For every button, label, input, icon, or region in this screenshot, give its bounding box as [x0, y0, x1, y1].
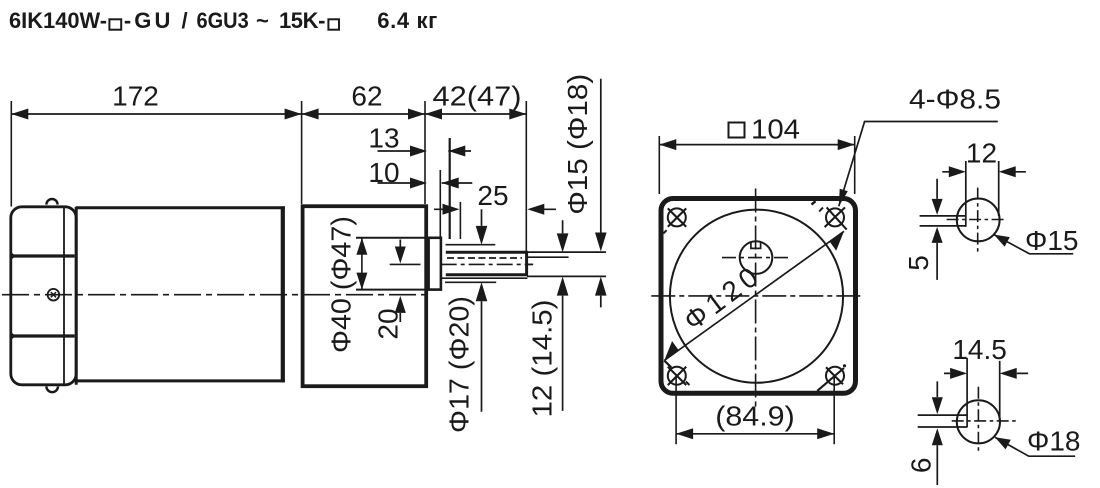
pilot circle	[670, 210, 843, 383]
dim 25	[434, 208, 556, 210]
svg-text:4-Φ8.5: 4-Φ8.5	[909, 84, 1001, 115]
svg-text:Φ15: Φ15	[1025, 225, 1078, 256]
shaft thin top line	[446, 244, 496, 246]
svg-text:6.4 кг: 6.4 кг	[377, 8, 437, 33]
svg-text:104: 104	[751, 113, 800, 144]
bolt hole TR	[826, 208, 844, 226]
detail18 extension left	[966, 358, 968, 428]
detail15 dim 5	[936, 179, 938, 280]
dim line 62	[302, 113, 425, 115]
keyway notch	[751, 242, 761, 248]
dim extension at motor/gear joint	[301, 101, 303, 204]
dim line (84.9)	[676, 433, 834, 435]
BR centerline dot	[843, 364, 846, 367]
bolt hole BL	[668, 367, 686, 385]
rear cover notch 2	[10, 331, 16, 342]
rear screw bottom	[46, 386, 58, 392]
BL diagonal dash to arrow	[664, 361, 671, 368]
detail15 vertical centerline	[977, 188, 979, 253]
dim line 172	[11, 113, 301, 115]
svg-text:6IK140W-: 6IK140W-	[9, 8, 107, 33]
svg-text:13: 13	[368, 123, 399, 154]
dim phi40(phi47) line	[361, 238, 363, 290]
rear cover divider 2	[12, 334, 75, 337]
output shaft centerline stub	[390, 263, 421, 265]
motor body	[76, 208, 285, 381]
bearing boss	[429, 238, 441, 290]
dim phi120 diagonal	[664, 231, 844, 360]
dim 10	[378, 182, 473, 184]
dim 172 extension left	[10, 101, 12, 207]
svg-text:12 (14.5): 12 (14.5)	[527, 300, 558, 418]
dim line 42(47)	[425, 113, 526, 115]
rear cover divider 1	[12, 254, 75, 257]
dim 12(14.5)	[562, 220, 564, 411]
front horizontal centerline	[651, 295, 864, 297]
center screw	[48, 289, 60, 301]
svg-text:42(47): 42(47)	[433, 81, 522, 112]
svg-text:20: 20	[373, 308, 404, 339]
svg-text:5: 5	[903, 255, 934, 271]
dim square104 extension left	[658, 136, 660, 194]
dim 10 extension	[439, 170, 441, 237]
dim 13	[378, 150, 472, 152]
svg-text:Φ17 (Φ20): Φ17 (Φ20)	[444, 296, 475, 433]
svg-text:12: 12	[966, 138, 997, 169]
bolt hole TL	[668, 208, 686, 226]
dim 13 extension	[449, 138, 451, 239]
svg-text:172: 172	[112, 81, 159, 112]
dim phi17(phi20)	[481, 209, 483, 411]
svg-text:14.5: 14.5	[952, 334, 1007, 365]
shaft flat dashed line	[447, 257, 522, 259]
dim (84.9) extensions	[676, 376, 834, 444]
rear cover inner line	[63, 208, 65, 384]
detail15 horizontal centerline	[947, 219, 1007, 221]
detail18 dim 6	[936, 381, 938, 485]
title square symbol 2	[328, 19, 339, 29]
svg-text:62: 62	[351, 81, 382, 112]
motor centerline	[2, 294, 426, 296]
shaft flat extension line	[528, 256, 569, 258]
rear cover notch 1	[10, 251, 16, 262]
rear cover right edge	[75, 207, 78, 385]
BL corner dash	[686, 382, 690, 386]
svg-text:(84.9): (84.9)	[715, 400, 795, 431]
front flange square	[661, 199, 856, 394]
TL corner dash	[663, 230, 666, 233]
shaft hole horizontal centerline	[722, 257, 791, 259]
shaft bottom extension to phi dims	[527, 275, 606, 277]
detail18 horizontal centerline	[952, 420, 1019, 422]
dim line square104	[659, 144, 854, 146]
dim phi15(phi18)	[600, 79, 602, 308]
TR corner nub	[812, 201, 816, 204]
shaft top edge	[446, 251, 528, 254]
motor front face edge	[281, 206, 285, 382]
shaft end face	[525, 251, 528, 276]
detail18 circle	[957, 400, 1000, 443]
svg-text:15K-: 15K-	[279, 8, 325, 33]
svg-text:6: 6	[906, 458, 937, 474]
gearbox body	[303, 206, 427, 386]
shaft bottom edge	[446, 273, 528, 276]
detail18 vertical centerline	[977, 387, 979, 453]
svg-text:6GU3: 6GU3	[197, 8, 249, 33]
front shaft hole	[740, 241, 773, 274]
dim square104 extension right	[854, 136, 856, 194]
detail15 flat lines	[920, 216, 966, 226]
svg-text:~: ~	[256, 8, 269, 33]
TR corner dash	[819, 208, 823, 212]
svg-text:10: 10	[368, 157, 399, 188]
dim 20	[399, 240, 401, 323]
svg-text:-GU: -GU	[124, 8, 170, 33]
detail15 extension left	[965, 161, 967, 227]
dim extension at gearbox face	[424, 101, 426, 204]
dim 25 extension	[459, 202, 461, 239]
shaft top extension to phi dims	[527, 251, 606, 253]
bolt hole BR	[826, 367, 844, 385]
rear screw top	[46, 199, 57, 205]
svg-text:/: /	[182, 8, 188, 33]
detail18 extension right	[999, 361, 1001, 420]
detail18 flat lines	[918, 415, 967, 427]
dim extension at shaft end	[525, 101, 527, 252]
motor rear cover	[11, 207, 76, 385]
shaft centerline stub right	[528, 263, 532, 265]
front vertical centerline	[755, 189, 757, 409]
svg-text:Φ18: Φ18	[1027, 425, 1080, 456]
detail15 extension right	[998, 161, 1000, 216]
detail18 leader phi18	[995, 437, 1075, 456]
detail15 circle	[957, 199, 1000, 242]
svg-text:Φ15 (Φ18): Φ15 (Φ18)	[562, 74, 593, 215]
output shaft centerline	[441, 263, 534, 265]
title model text	[9, 8, 437, 33]
svg-text:Φ40 (Φ47): Φ40 (Φ47)	[326, 216, 357, 353]
svg-text:25: 25	[477, 180, 508, 211]
detail15 leader phi15	[994, 235, 1073, 254]
shaft thin bottom line	[441, 277, 527, 279]
boss bottom extension line	[356, 289, 429, 291]
boss top extension line	[356, 237, 429, 239]
shaft thin short bottom line	[445, 281, 496, 283]
title square symbol 1	[109, 19, 121, 29]
